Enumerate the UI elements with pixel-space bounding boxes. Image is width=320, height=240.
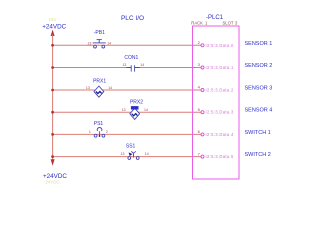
junction row 3 [51, 89, 54, 92]
pushbutton PB1 [93, 40, 106, 48]
pressure switch PS1 [94, 128, 105, 138]
svg-text:SS1: SS1 [126, 144, 136, 150]
svg-text:PRX1: PRX1 [93, 79, 106, 85]
svg-text:14: 14 [140, 63, 144, 67]
svg-text:PLC I/O: PLC I/O [121, 15, 144, 22]
svg-text:I2:5:3.Data.1: I2:5:3.Data.1 [206, 65, 234, 70]
junction row 1 [51, 44, 54, 47]
wire row 2 [53, 67, 201, 69]
svg-text:PRX2: PRX2 [130, 99, 143, 105]
selector switch SS1 [128, 151, 139, 159]
svg-text:13: 13 [87, 41, 91, 45]
svg-text:I2:5:3.Data.5: I2:5:3.Data.5 [206, 154, 234, 159]
wire row 6 [53, 156, 201, 158]
svg-text:+24VDC: +24VDC [42, 23, 66, 30]
wire vertical bus [52, 35, 54, 164]
svg-text:I2:5:3.Data.4: I2:5:3.Data.4 [206, 132, 234, 137]
svg-text:SWITCH 1: SWITCH 1 [245, 130, 271, 136]
svg-text:SENSOR 1: SENSOR 1 [245, 41, 273, 47]
svg-text:SENSOR 4: SENSOR 4 [245, 108, 273, 114]
PLC module PLC1 box [193, 26, 240, 179]
svg-text:13: 13 [121, 152, 125, 156]
svg-text:-PLC1: -PLC1 [206, 15, 224, 21]
svg-text:I2:5:3.Data.3: I2:5:3.Data.3 [206, 110, 234, 115]
wire row 5 [53, 133, 201, 135]
svg-text:I2:5:3.Data.0: I2:5:3.Data.0 [206, 43, 234, 48]
wire row 3 [53, 89, 201, 91]
svg-text:24VDC: 24VDC [45, 180, 60, 185]
wire row 4 [53, 111, 201, 113]
svg-text:13: 13 [122, 63, 126, 67]
wire source arrow (top) [51, 30, 55, 37]
junction row 4 [51, 111, 54, 114]
junction row 6 [51, 155, 54, 158]
svg-text:SWITCH 2: SWITCH 2 [245, 152, 271, 158]
svg-text:RACK: RACK [191, 20, 203, 25]
proximity switch PRX1 [94, 86, 104, 97]
svg-text:1: 1 [89, 130, 91, 134]
PLC pin 2 [201, 44, 204, 47]
svg-text:SENSOR 3: SENSOR 3 [245, 86, 273, 92]
svg-text:SLOT: SLOT [223, 20, 234, 25]
wire row 1 [53, 44, 201, 46]
svg-text:CON1: CON1 [124, 55, 138, 61]
junction row 5 [51, 133, 54, 136]
svg-text:14: 14 [144, 108, 148, 112]
svg-text:14: 14 [145, 152, 149, 156]
PLC pin 4 [201, 89, 204, 92]
svg-text:-PB1: -PB1 [94, 30, 105, 36]
svg-text:13: 13 [86, 86, 90, 90]
svg-text:14: 14 [108, 86, 112, 90]
PLC pin 7 [201, 155, 204, 158]
svg-text:14: 14 [107, 41, 111, 45]
svg-text:I2:5:3.Data.2: I2:5:3.Data.2 [206, 88, 234, 93]
PLC pin 3 [201, 66, 204, 69]
proximity switch PRX2 [130, 108, 140, 119]
junction row 2 [51, 66, 54, 69]
contact CON1 [132, 66, 134, 70]
svg-text:SENSOR 2: SENSOR 2 [245, 63, 273, 69]
svg-text:PS1: PS1 [94, 121, 104, 127]
wire source arrow (bottom) [51, 159, 55, 166]
PLC pin 6 [201, 133, 204, 136]
PLC pin 5 [201, 111, 204, 114]
svg-text:2: 2 [106, 130, 108, 134]
svg-text:13: 13 [122, 108, 126, 112]
svg-text:24V: 24V [48, 17, 56, 22]
